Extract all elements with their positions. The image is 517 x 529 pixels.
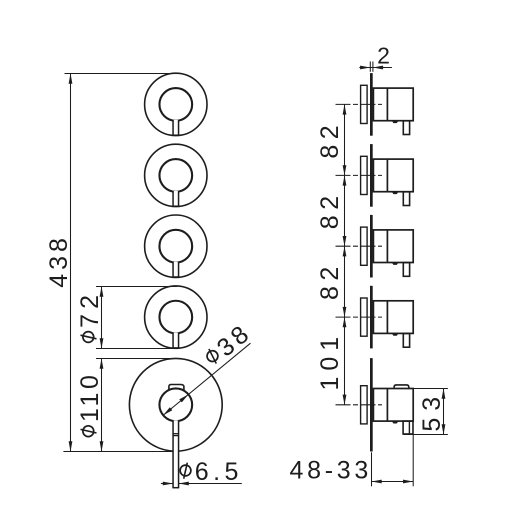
extension line knob top bbox=[413, 388, 448, 390]
dimension line Φ38 diagonal bbox=[163, 343, 251, 415]
extension line lever bottom bbox=[403, 434, 448, 436]
side valve 3 recessed body bbox=[361, 227, 368, 265]
extension lines plate thickness bbox=[370, 62, 373, 72]
front knob 1 inner circle Φ38 bbox=[159, 88, 192, 121]
arrowhead Φ38 lower bbox=[163, 407, 172, 415]
side valve 5 cartridge body and knob bbox=[373, 389, 413, 422]
svg-text:110: 110 bbox=[76, 372, 104, 422]
dimension label 438 bbox=[45, 234, 73, 288]
dimension line Φ110 bbox=[100, 359, 104, 452]
dimension label 101 bbox=[316, 331, 344, 391]
svg-text:101: 101 bbox=[316, 331, 344, 391]
front knob 4 lever stem bbox=[172, 333, 179, 348]
front knob 2 lever stem bbox=[172, 191, 179, 206]
svg-text:438: 438 bbox=[45, 234, 73, 288]
side valve 3 cartridge body and knob bbox=[373, 230, 413, 263]
svg-text:6.5: 6.5 bbox=[195, 458, 243, 486]
dimension line 53 bbox=[442, 389, 446, 435]
dimension label 2 bbox=[377, 43, 390, 69]
side valve 2 lever bbox=[403, 192, 409, 206]
chain dimension line 82/82/82/101 bbox=[343, 104, 347, 404]
front thermostat knob outer circle Φ110 bbox=[129, 358, 222, 451]
svg-text:82: 82 bbox=[316, 120, 344, 159]
side valve 4 recessed body bbox=[361, 298, 368, 336]
extension line knob front bbox=[412, 435, 414, 487]
side valve 2 recessed body bbox=[361, 156, 368, 194]
centre line valve 2 bbox=[336, 174, 383, 176]
side valve 5 wall plate (2mm) bbox=[370, 358, 373, 451]
front knob 4 inner circle Φ38 bbox=[159, 301, 192, 334]
dimension line 438 bbox=[69, 74, 73, 452]
side valve 3 lever bbox=[403, 263, 409, 277]
side valve 1 recessed body bbox=[361, 85, 368, 123]
extension line bottom of big knob bbox=[63, 451, 173, 453]
side valve 2 cartridge body and knob bbox=[373, 159, 413, 192]
front knob 1 outer circle Φ72 bbox=[145, 73, 207, 135]
extension arrow Φ6.5 left bbox=[161, 482, 173, 486]
dimension label 53 bbox=[418, 390, 446, 432]
side valve 4 cartridge body and knob bbox=[373, 301, 413, 334]
svg-text:82: 82 bbox=[316, 190, 344, 229]
side valve 1 indicator notch bbox=[392, 121, 399, 123]
side valve 1 wall plate (2mm) bbox=[370, 73, 373, 136]
centre line valve 4 bbox=[336, 316, 383, 318]
side valve 3 wall plate (2mm) bbox=[370, 215, 373, 278]
extension arrow Φ6.5 right leader bbox=[179, 482, 242, 486]
svg-text:2: 2 bbox=[377, 43, 390, 69]
arrowhead Φ38 upper bbox=[179, 394, 188, 402]
front thermostat knob inner circle Φ38 bbox=[159, 388, 192, 421]
dimension label 82 (1) bbox=[316, 120, 344, 159]
centre line valve 5 bbox=[336, 404, 383, 406]
dimension line Φ72 bbox=[100, 287, 104, 349]
side valve 4 indicator notch bbox=[392, 333, 399, 335]
front knob 3 lever stem bbox=[172, 262, 179, 277]
front knob 3 outer circle Φ72 bbox=[145, 215, 207, 277]
dimension label Φ38 bbox=[200, 318, 257, 372]
centre line valve 1 bbox=[336, 103, 383, 105]
side valve 4 lever bbox=[403, 334, 409, 348]
dimension label Φ110 bbox=[76, 372, 104, 437]
dimension line 48-33 bbox=[372, 480, 414, 484]
front thermostat knob top safety tab bbox=[169, 385, 184, 391]
side valve 1 lever bbox=[403, 121, 409, 135]
front knob 2 outer circle Φ72 bbox=[145, 144, 207, 206]
svg-text:72: 72 bbox=[76, 290, 104, 328]
side valve 3 indicator notch bbox=[392, 263, 399, 265]
front knob 2 inner circle Φ38 bbox=[159, 159, 192, 192]
extension line bottom of knob 4 bbox=[96, 348, 173, 350]
centre line valve 3 bbox=[336, 245, 383, 247]
dimension label 48-33 bbox=[290, 457, 372, 485]
side valve 2 indicator notch bbox=[392, 192, 399, 194]
front knob 4 outer circle Φ72 bbox=[145, 286, 207, 348]
svg-text:53: 53 bbox=[418, 390, 446, 432]
extension line plate bottom bbox=[371, 452, 373, 486]
side valve 5 indicator notch bbox=[392, 421, 399, 423]
dimension line 2 bbox=[359, 66, 392, 70]
extension line top of knob 4 bbox=[96, 286, 177, 288]
side valve 5 lever bbox=[403, 421, 413, 434]
dimension label Φ6.5 bbox=[180, 458, 243, 486]
front knob 3 inner circle Φ38 bbox=[159, 230, 192, 263]
side valve 4 wall plate (2mm) bbox=[370, 286, 373, 349]
dimension label Φ72 bbox=[76, 290, 104, 342]
extension line top of big knob bbox=[96, 358, 176, 360]
dimension label 82 (2) bbox=[316, 190, 344, 229]
svg-text:82: 82 bbox=[316, 261, 344, 300]
front thermostat knob handle stem Φ6.5 bbox=[172, 420, 179, 487]
side valve 5 top safety tab bbox=[394, 385, 409, 389]
side valve 2 wall plate (2mm) bbox=[370, 144, 373, 207]
dimension label 82 (3) bbox=[316, 261, 344, 300]
side valve 5 recessed body bbox=[361, 386, 368, 424]
extension line top of knob 1 bbox=[65, 73, 181, 75]
front knob 1 lever stem bbox=[172, 120, 179, 135]
side valve 1 cartridge body and knob bbox=[373, 88, 413, 121]
svg-text:48-33: 48-33 bbox=[290, 457, 372, 485]
